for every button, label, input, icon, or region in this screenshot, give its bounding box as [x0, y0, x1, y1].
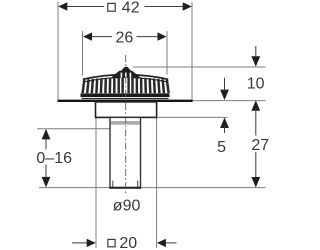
dimension 20 right line and arrow — [157, 239, 177, 247]
reference line collar bottom (for dim 5) — [157, 116, 228, 118]
dimension 0-16 down arrow — [42, 177, 51, 188]
dimension 26 left arrow — [83, 32, 92, 40]
leaf guard cap plate — [111, 71, 141, 78]
extension line left of dim 26 — [82, 31, 84, 76]
svg-text:27: 27 — [251, 137, 269, 154]
svg-text:42: 42 — [122, 0, 140, 16]
dimension 42 right arrow — [183, 2, 192, 10]
extension line right of dim 26 — [166, 31, 168, 75]
outlet pipe body — [110, 117, 141, 187]
roof flange plate — [58, 100, 193, 102]
extension line left of dim 20 — [95, 118, 97, 248]
dimension 20 left line and arrow — [72, 239, 96, 247]
dimension 27 line with arrows — [251, 100, 260, 187]
reference line grate top (for dim 10) — [133, 66, 266, 68]
leaf guard grate slat band — [82, 77, 169, 93]
svg-text:0–16: 0–16 — [36, 150, 72, 167]
dimension 42 left arrow — [58, 2, 67, 10]
collar body below flange — [96, 102, 157, 118]
leaf guard cap slots — [121, 73, 130, 78]
dimension 10 top arrow — [251, 46, 260, 67]
dimension 5 bottom arrow — [220, 118, 229, 134]
svg-text:26: 26 — [116, 29, 134, 46]
svg-text:20: 20 — [119, 235, 137, 250]
reference line pipe lip (for dim 0-16) — [37, 128, 110, 130]
reference line flange top right (for dims 10/27/5) — [193, 100, 266, 102]
extension line left of dim 42 — [57, 2, 59, 100]
extension line right of dim 42 — [191, 2, 193, 100]
dimension 26 right arrow — [158, 32, 167, 40]
leaf guard grate top rim — [83, 75, 168, 80]
dimension 0-16 up arrow — [42, 129, 51, 140]
dimension 26 line — [90, 36, 159, 38]
svg-text:5: 5 — [217, 139, 226, 156]
reference line pipe bottom (for dims 0-16 and 27) — [39, 187, 266, 189]
svg-text:ø90: ø90 — [113, 197, 141, 214]
leaf guard grate base ring — [81, 93, 170, 97]
dimension 0-16 line — [45, 136, 47, 179]
dimension 42 square symbol — [108, 3, 115, 11]
leaf guard grate centre gap — [124, 78, 127, 93]
dimension 20 square symbol — [108, 239, 115, 246]
pipe wall thickness marks — [112, 181, 114, 188]
pipe bottom edge — [109, 187, 141, 189]
leaf guard grate base foot line — [82, 98, 169, 99]
extension line right of dim 20 — [156, 117, 158, 248]
svg-text:10: 10 — [247, 75, 265, 92]
centre line — [125, 55, 127, 194]
dimension 42 line — [66, 6, 184, 8]
dimension 5 top arrow — [220, 78, 229, 100]
pipe socket lip lines — [111, 121, 140, 123]
leaf guard knob — [121, 67, 131, 71]
